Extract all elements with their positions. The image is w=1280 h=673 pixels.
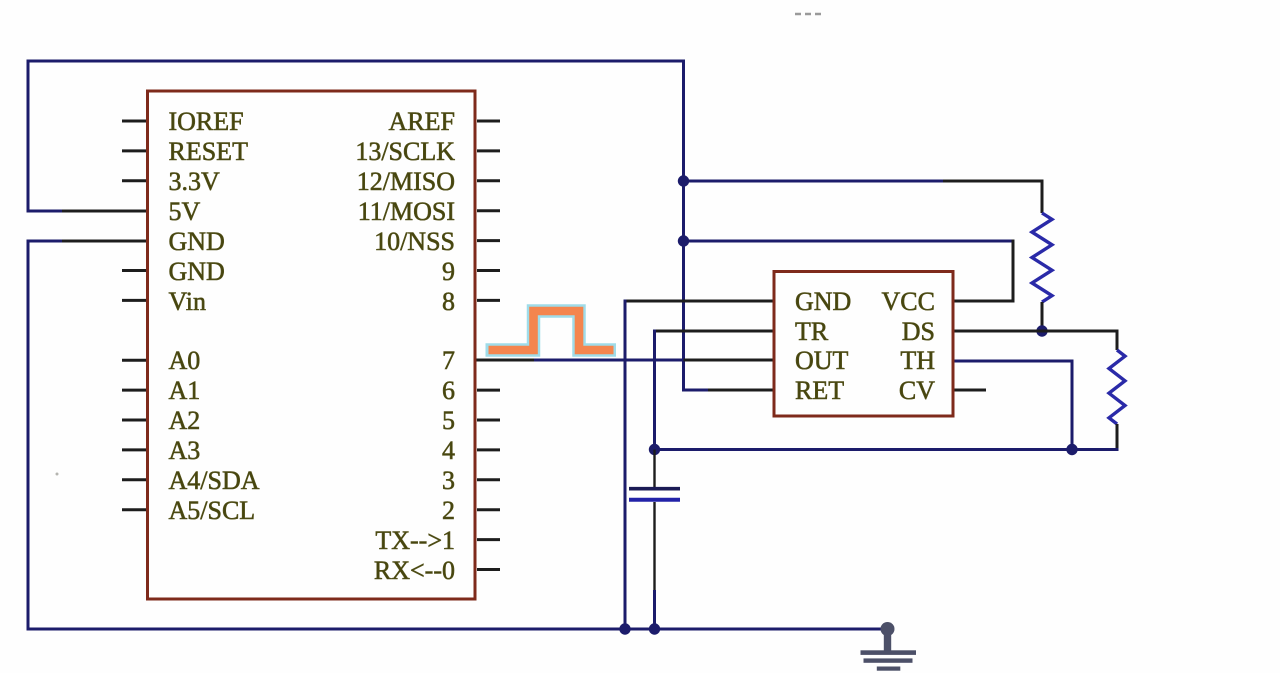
555 timer U2 box xyxy=(774,272,953,417)
wire: Arduino 5V pin to left rail xyxy=(28,210,149,213)
svg-text:2: 2 xyxy=(442,496,455,525)
wire: DS to R2 top xyxy=(951,330,1119,333)
svg-text:3.3V: 3.3V xyxy=(169,167,221,196)
svg-text:CV: CV xyxy=(899,376,935,405)
ground symbol xyxy=(861,622,917,671)
wire: bottom ground rail xyxy=(27,628,888,631)
pin stub 8 xyxy=(477,299,500,302)
pin stub A2 xyxy=(122,419,146,422)
pin stub IOREF xyxy=(122,120,146,123)
svg-text:9: 9 xyxy=(442,257,455,286)
svg-text:TX-->1: TX-->1 xyxy=(375,526,455,555)
junction node C (R1 bottom / DS net) xyxy=(1036,325,1047,336)
wire: left rail vertical (5V net) xyxy=(27,60,30,213)
capacitor C1 xyxy=(629,450,680,630)
pin stub AREF xyxy=(477,120,500,123)
pin stub A4/SDA xyxy=(122,478,146,481)
svg-text:TH: TH xyxy=(900,346,935,375)
wire: TH to node D xyxy=(951,360,1074,450)
pin stub 9 xyxy=(477,269,500,272)
svg-text:Vin: Vin xyxy=(169,287,206,316)
svg-text:5V: 5V xyxy=(169,197,201,226)
pin stub RESET xyxy=(122,149,146,152)
svg-text:RX<--0: RX<--0 xyxy=(374,556,455,585)
wire: CV stub xyxy=(951,389,986,392)
pin stub 3 xyxy=(477,478,500,481)
stray mark: small dashes top center xyxy=(795,13,821,16)
wire: 555 GND corner to bottom rail xyxy=(625,300,776,630)
junction: C1 bottom at rail xyxy=(649,623,660,634)
svg-text:GND: GND xyxy=(795,287,851,316)
wire: threshold net horizontal to R2 bottom xyxy=(655,448,1119,451)
wire: vertical drop x=683.5 (5V net to RET) xyxy=(682,60,685,391)
svg-text:3: 3 xyxy=(442,466,455,495)
wire: TR corner to node E xyxy=(655,330,776,450)
junction node B (5V tap to VCC) xyxy=(678,235,689,246)
svg-text:8: 8 xyxy=(442,287,455,316)
Arduino U1 box xyxy=(148,91,476,599)
svg-text:VCC: VCC xyxy=(882,287,935,316)
svg-text:A0: A0 xyxy=(169,346,201,375)
svg-text:TR: TR xyxy=(795,317,829,346)
pin stub 10/NSS xyxy=(477,239,500,242)
wire: node B to 555 VCC xyxy=(684,240,1015,302)
svg-text:A1: A1 xyxy=(169,376,201,405)
wire: Arduino GND pin to left rail xyxy=(28,240,149,243)
resistor R2 xyxy=(1109,330,1125,452)
pin stub 12/MISO xyxy=(477,179,500,182)
junction node E (TR / C1 top) xyxy=(649,444,660,455)
junction node A (5V tap to R1) xyxy=(678,175,689,186)
svg-text:A2: A2 xyxy=(169,406,201,435)
pin stub TX1 xyxy=(477,538,500,541)
svg-text:A5/SCL: A5/SCL xyxy=(169,496,256,525)
svg-text:13/SCLK: 13/SCLK xyxy=(355,137,455,166)
resistor R1 xyxy=(1032,180,1052,332)
svg-text:AREF: AREF xyxy=(389,107,455,136)
pin stub 13/SCLK xyxy=(477,149,500,152)
pin stub 5 xyxy=(477,419,500,422)
svg-text:4: 4 xyxy=(442,436,455,465)
stray speck left margin xyxy=(56,473,59,476)
svg-text:11/MOSI: 11/MOSI xyxy=(358,197,455,226)
pin stub A3 xyxy=(122,448,146,451)
svg-text:IOREF: IOREF xyxy=(169,107,244,136)
pin stub GND (row 6) xyxy=(122,269,146,272)
svg-text:GND: GND xyxy=(169,257,225,286)
pin stub A5/SCL xyxy=(122,508,146,511)
wire: left rail vertical (GND net) xyxy=(27,240,30,631)
svg-text:A4/SDA: A4/SDA xyxy=(169,466,260,495)
svg-text:12/MISO: 12/MISO xyxy=(357,167,455,196)
wire: 555 OUT to Arduino pin 7 xyxy=(475,359,776,362)
junction: 555 GND line at rail xyxy=(619,623,630,634)
svg-text:OUT: OUT xyxy=(795,346,849,375)
pin stub RX0 xyxy=(477,568,500,571)
pin stub A1 xyxy=(122,389,146,392)
svg-text:RET: RET xyxy=(795,376,844,405)
svg-text:RESET: RESET xyxy=(169,137,249,166)
stray tick near 10/NSS label xyxy=(370,243,374,248)
svg-text:6: 6 xyxy=(442,376,455,405)
wire: top horizontal (5V net) xyxy=(27,60,686,63)
pin stub 3.3V xyxy=(122,179,146,182)
pin stub 2 xyxy=(477,508,500,511)
svg-text:10/NSS: 10/NSS xyxy=(374,227,455,256)
pin stub Vin xyxy=(122,299,146,302)
junction node D (TH / R2 bottom) xyxy=(1066,444,1077,455)
pin stub 6 xyxy=(477,389,500,392)
pulse waveform icon xyxy=(486,311,617,350)
svg-text:DS: DS xyxy=(902,317,935,346)
pin stub 11/MOSI xyxy=(477,209,500,212)
svg-text:A3: A3 xyxy=(169,436,201,465)
svg-text:5: 5 xyxy=(442,406,455,435)
pin stub 4 xyxy=(477,448,500,451)
svg-text:GND: GND xyxy=(169,227,225,256)
wire: node A to R1 top xyxy=(684,180,1044,183)
pin stub A0 xyxy=(122,359,146,362)
wire: RET stub xyxy=(682,389,776,392)
svg-text:7: 7 xyxy=(442,346,455,375)
